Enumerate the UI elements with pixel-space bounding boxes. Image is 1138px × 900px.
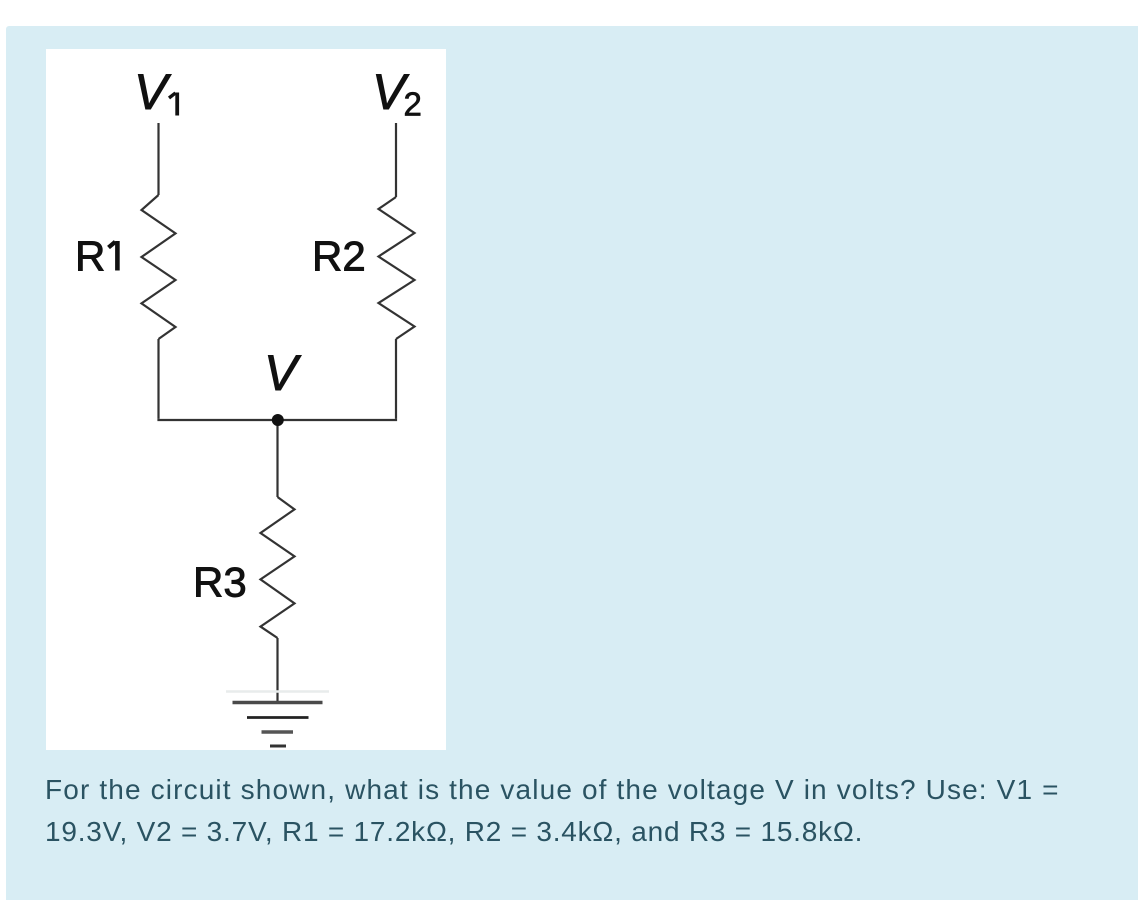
svg-text:R3: R3 <box>193 559 247 606</box>
wire R3 to ground <box>276 638 278 702</box>
wire horizontal junction <box>157 419 397 421</box>
wire from V2 to R2 <box>395 123 397 197</box>
svg-text:V: V <box>264 345 302 401</box>
resistor R3 <box>261 497 295 638</box>
svg-text:R2: R2 <box>312 233 366 280</box>
node junction dot <box>272 414 284 426</box>
svg-text:R: R <box>75 233 105 280</box>
resistor R2 <box>379 197 415 339</box>
resistor R1 <box>142 195 176 339</box>
wire from V1 to R1 <box>157 123 159 195</box>
question text <box>45 769 1125 853</box>
circuit image white box <box>46 49 446 750</box>
svg-text:V: V <box>134 64 172 120</box>
wire R1 bottom to node (left vertical) <box>157 339 159 419</box>
wire node down to R3 <box>276 420 278 497</box>
wire R2 bottom to node (right vertical) <box>395 339 397 419</box>
ground <box>226 692 329 747</box>
svg-text:2: 2 <box>404 86 422 123</box>
